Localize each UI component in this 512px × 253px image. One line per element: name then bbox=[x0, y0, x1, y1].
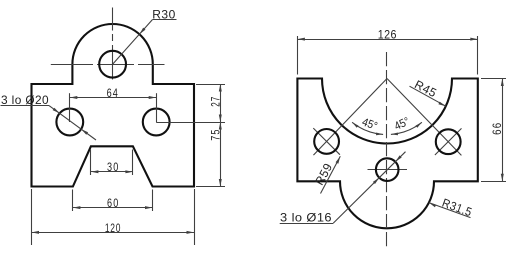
right vertical centerline bbox=[386, 52, 388, 247]
left small hole bbox=[314, 129, 339, 154]
dim 60 line bbox=[73, 206, 153, 209]
R59 leader bbox=[321, 156, 341, 193]
R31.5 leader bbox=[429, 203, 471, 218]
svg-text:R31.5: R31.5 bbox=[440, 196, 474, 220]
dim 64 line bbox=[70, 96, 156, 99]
dim 66 line bbox=[501, 79, 504, 182]
3 lo Ø16 underline bbox=[280, 223, 334, 225]
svg-text:R59: R59 bbox=[312, 161, 335, 188]
dim 66 extension lines bbox=[481, 79, 506, 182]
left horizontal centerline bbox=[51, 64, 165, 66]
svg-text:30: 30 bbox=[107, 160, 119, 174]
R45 leader bbox=[410, 86, 446, 106]
dim 75 text bbox=[208, 128, 222, 140]
dim 30 extension lines bbox=[91, 150, 133, 176]
3 lo Ø16 leader bbox=[333, 152, 405, 223]
left vertical centerline bbox=[112, 8, 114, 80]
dim 30 line bbox=[91, 170, 133, 173]
dim 27/75 extension lines bbox=[156, 85, 225, 187]
3 lo Ø20 label bbox=[1, 93, 49, 107]
dim 120 extension lines bbox=[32, 189, 195, 245]
left plate outline with R30 boss and trapezoid notch bbox=[32, 24, 195, 187]
right hole Ø20 bbox=[143, 109, 170, 136]
dim 66 text bbox=[490, 122, 504, 135]
svg-text:3 lo Ø20: 3 lo Ø20 bbox=[1, 93, 49, 107]
left 45deg text bbox=[360, 116, 379, 133]
right 45 deg line from vertex through right hole bbox=[387, 79, 461, 156]
svg-text:126: 126 bbox=[378, 28, 397, 42]
right hole cross diagonal bbox=[435, 128, 462, 155]
svg-text:3 lo Ø16: 3 lo Ø16 bbox=[280, 211, 332, 225]
right 45deg text bbox=[393, 116, 412, 133]
left 45deg dim arc bbox=[352, 122, 383, 135]
dim 126 text bbox=[378, 28, 397, 42]
center hole Ø16 bbox=[376, 158, 399, 181]
dim 120 text bbox=[105, 221, 121, 235]
right 45deg dim arc bbox=[391, 122, 422, 135]
dim 126 extension lines bbox=[298, 36, 478, 75]
3 lo Ø20 leader bbox=[49, 106, 96, 140]
svg-text:64: 64 bbox=[107, 86, 119, 100]
dim 30 text bbox=[107, 160, 119, 174]
left 45 deg line from vertex through left hole bbox=[313, 79, 387, 156]
R30 text bbox=[152, 8, 176, 22]
left hole Ø20 bbox=[56, 109, 83, 136]
dim 27/75 line bbox=[219, 84, 222, 187]
3 lo Ø20 underline bbox=[1, 105, 50, 107]
svg-text:27: 27 bbox=[208, 96, 222, 107]
R45 text bbox=[412, 77, 439, 100]
center hole horizontal centerline bbox=[368, 169, 408, 171]
dim 64 extension lines bbox=[70, 93, 157, 122]
svg-text:66: 66 bbox=[490, 122, 504, 135]
boss hole bbox=[99, 51, 126, 78]
svg-text:75: 75 bbox=[208, 128, 222, 140]
svg-text:45°: 45° bbox=[360, 116, 379, 133]
svg-text:R30: R30 bbox=[152, 8, 176, 22]
dim 64 text bbox=[107, 86, 119, 100]
R59 text bbox=[312, 161, 335, 188]
svg-text:120: 120 bbox=[105, 221, 121, 235]
right small hole bbox=[436, 129, 461, 154]
dim 60 text bbox=[107, 196, 119, 210]
R31.5 text bbox=[440, 196, 474, 220]
dim 60 extension lines bbox=[73, 190, 153, 212]
dim 126 line bbox=[297, 38, 477, 41]
R30 leader bbox=[113, 20, 177, 65]
svg-text:R45: R45 bbox=[412, 77, 439, 100]
left hole cross diagonal bbox=[313, 128, 340, 155]
dim 120 line bbox=[32, 231, 195, 234]
3 lo Ø16 label bbox=[280, 211, 332, 225]
svg-text:60: 60 bbox=[107, 196, 119, 210]
right plate outline with R45 cutout and R31.5 bulge bbox=[297, 79, 477, 229]
dim 27 text bbox=[208, 96, 222, 107]
